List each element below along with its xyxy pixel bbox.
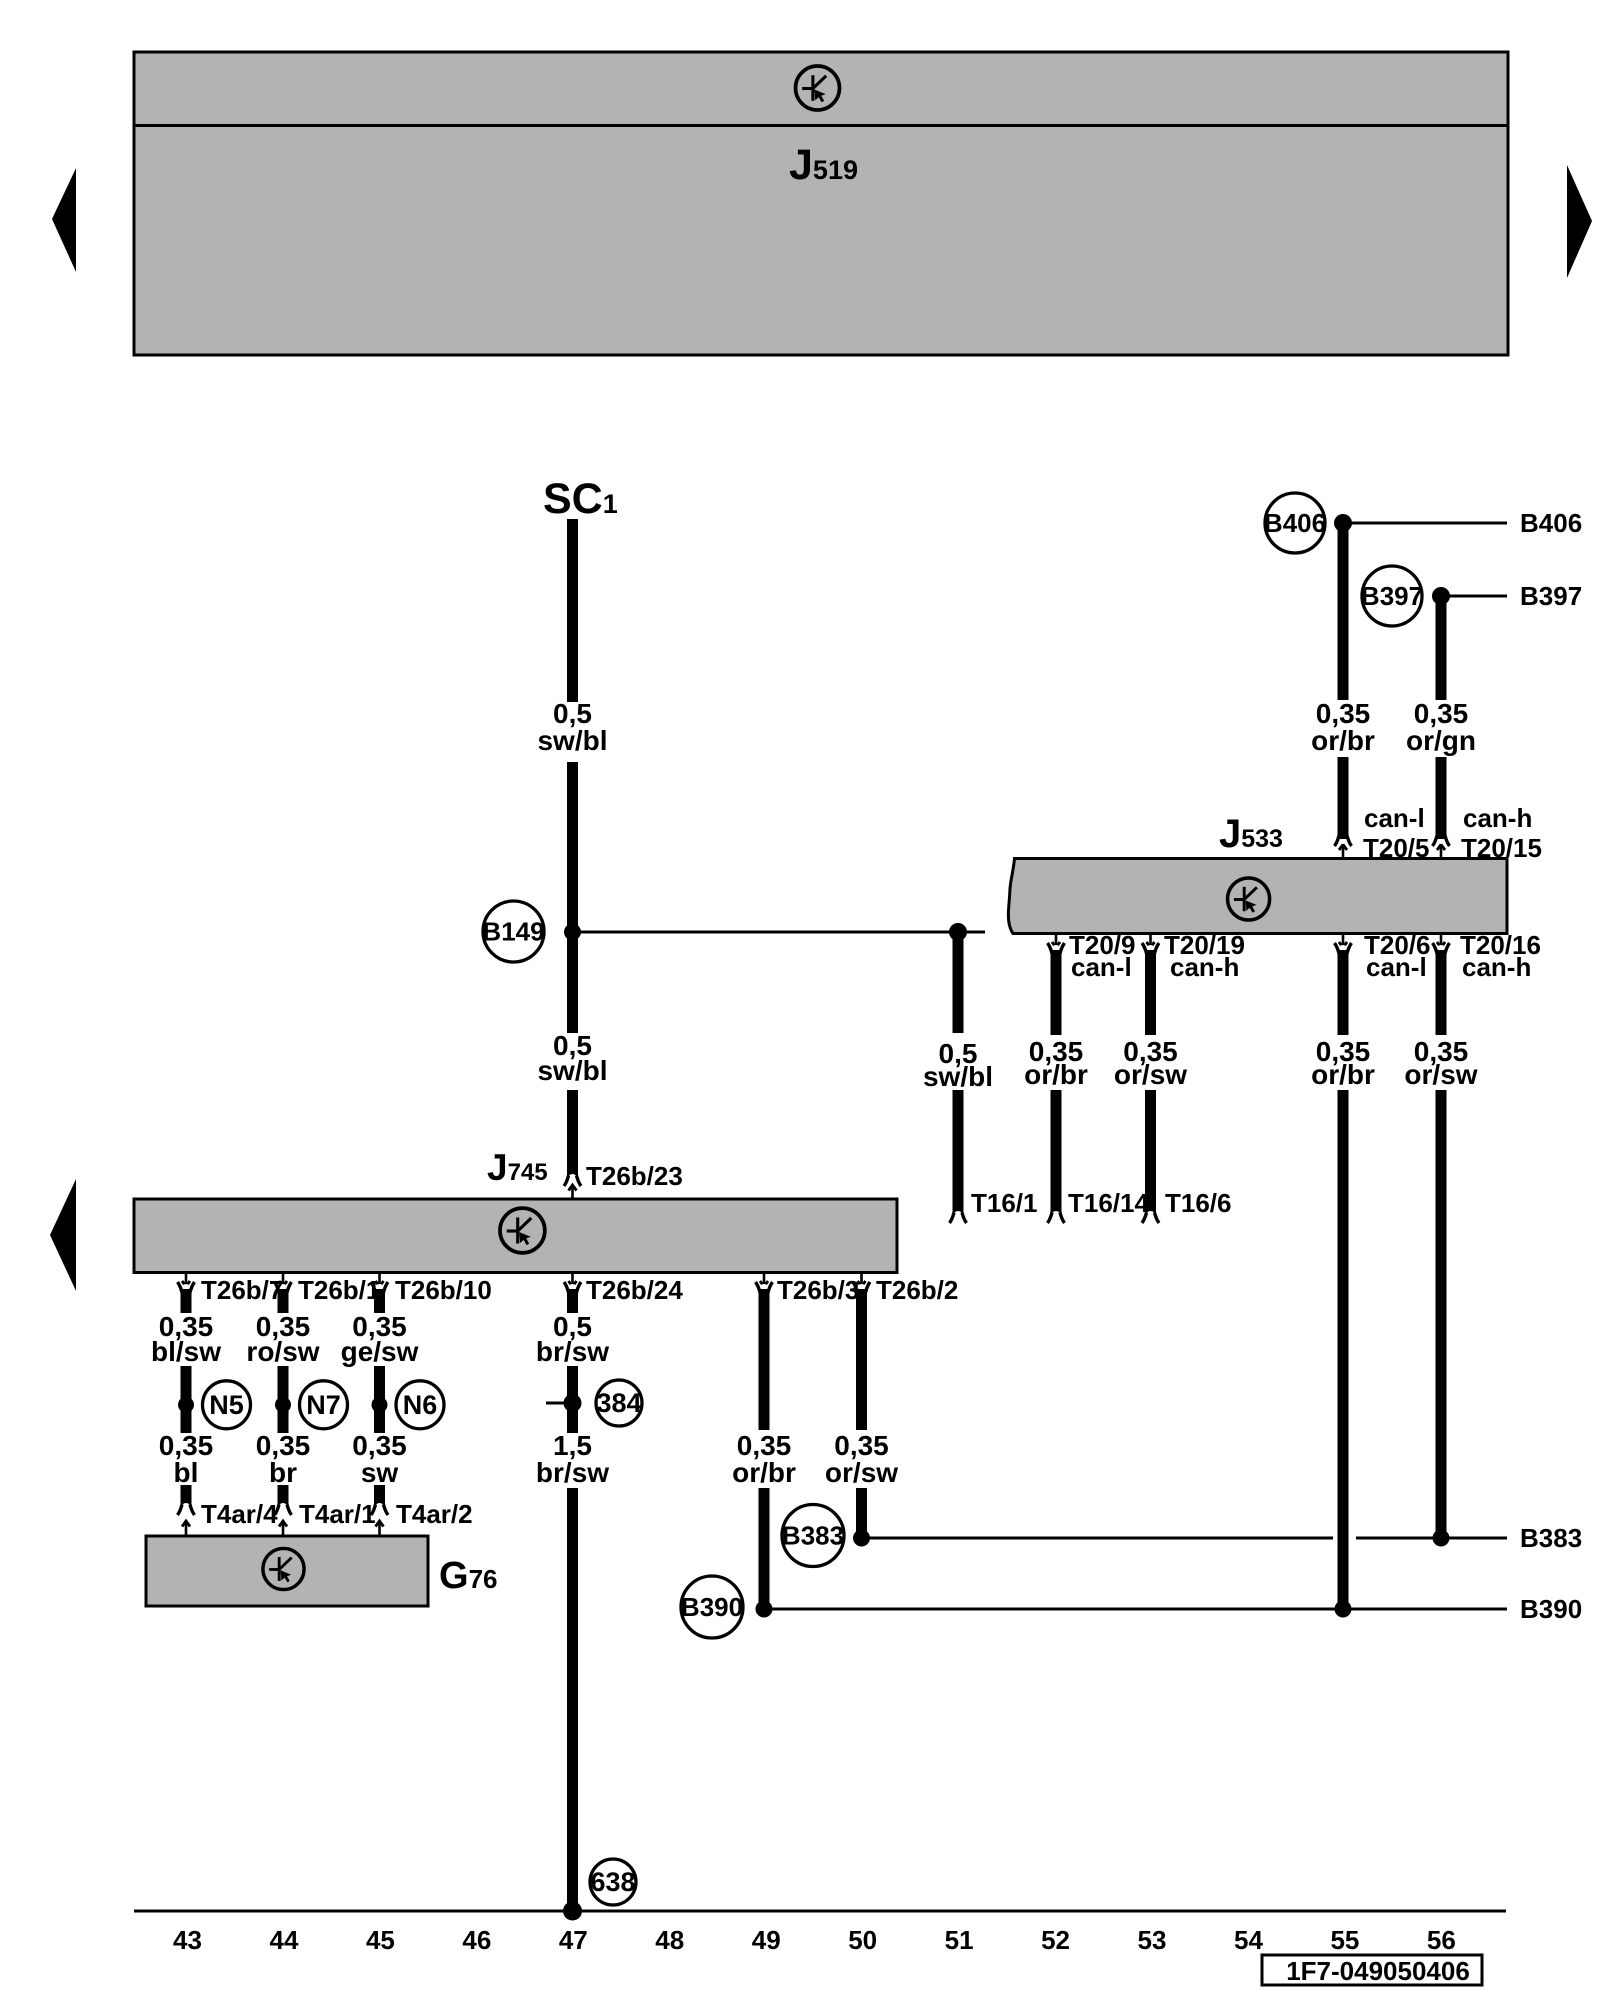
svg-text:can-h: can-h (1170, 952, 1239, 982)
svg-text:47: 47 (559, 1925, 588, 1955)
svg-text:46: 46 (462, 1925, 491, 1955)
svg-text:N5: N5 (209, 1390, 244, 1420)
svg-text:sw/bl: sw/bl (923, 1061, 993, 1092)
svg-text:B397: B397 (1520, 581, 1582, 611)
svg-text:T26b/3: T26b/3 (777, 1275, 859, 1305)
svg-text:T16/14: T16/14 (1068, 1188, 1149, 1218)
svg-text:45: 45 (366, 1925, 395, 1955)
svg-text:B383: B383 (782, 1521, 844, 1551)
svg-text:T20/5: T20/5 (1363, 833, 1430, 863)
svg-text:ge/sw: ge/sw (341, 1336, 419, 1367)
svg-text:T4ar/4: T4ar/4 (201, 1499, 278, 1529)
svg-text:B390: B390 (681, 1592, 743, 1622)
svg-text:T26b/7: T26b/7 (201, 1275, 283, 1305)
svg-text:bl: bl (174, 1457, 199, 1488)
svg-text:T26b/24: T26b/24 (586, 1275, 683, 1305)
svg-text:can-l: can-l (1364, 803, 1425, 833)
svg-text:53: 53 (1138, 1925, 1167, 1955)
svg-text:N6: N6 (403, 1390, 438, 1420)
svg-text:can-h: can-h (1463, 803, 1532, 833)
svg-text:br/sw: br/sw (536, 1336, 609, 1367)
svg-text:1F7-049050406: 1F7-049050406 (1286, 1956, 1470, 1986)
svg-text:54: 54 (1234, 1925, 1263, 1955)
svg-text:638: 638 (590, 1867, 635, 1897)
svg-text:T16/6: T16/6 (1165, 1188, 1232, 1218)
svg-text:bl/sw: bl/sw (151, 1336, 221, 1367)
svg-text:sw: sw (361, 1457, 399, 1488)
svg-text:B149: B149 (482, 917, 544, 947)
svg-text:384: 384 (596, 1388, 641, 1418)
svg-text:SC1: SC1 (543, 475, 618, 523)
svg-text:T26b/10: T26b/10 (395, 1275, 492, 1305)
svg-text:or/br: or/br (732, 1457, 796, 1488)
svg-text:T4ar/1: T4ar/1 (299, 1499, 376, 1529)
svg-text:sw/bl: sw/bl (537, 725, 607, 756)
svg-text:48: 48 (655, 1925, 684, 1955)
svg-text:51: 51 (945, 1925, 974, 1955)
svg-text:55: 55 (1330, 1925, 1359, 1955)
svg-text:N7: N7 (306, 1390, 341, 1420)
svg-text:or/sw: or/sw (1404, 1059, 1477, 1090)
svg-text:T20/15: T20/15 (1461, 833, 1542, 863)
svg-text:B406: B406 (1520, 508, 1582, 538)
svg-text:T16/1: T16/1 (971, 1188, 1038, 1218)
svg-text:or/br: or/br (1311, 725, 1375, 756)
svg-text:B383: B383 (1520, 1523, 1582, 1553)
svg-text:B390: B390 (1520, 1594, 1582, 1624)
svg-text:B406: B406 (1264, 508, 1326, 538)
svg-text:G76: G76 (439, 1555, 497, 1597)
svg-text:or/br: or/br (1024, 1059, 1088, 1090)
svg-text:52: 52 (1041, 1925, 1070, 1955)
svg-text:49: 49 (752, 1925, 781, 1955)
svg-text:or/br: or/br (1311, 1059, 1375, 1090)
svg-text:44: 44 (269, 1925, 298, 1955)
svg-text:or/gn: or/gn (1406, 725, 1476, 756)
svg-text:can-h: can-h (1462, 952, 1531, 982)
svg-text:br: br (269, 1457, 297, 1488)
svg-text:B397: B397 (1361, 581, 1423, 611)
svg-text:56: 56 (1427, 1925, 1456, 1955)
svg-text:J533: J533 (1219, 812, 1283, 856)
svg-text:T26b/1: T26b/1 (298, 1275, 380, 1305)
svg-text:T26b/2: T26b/2 (876, 1275, 958, 1305)
svg-text:or/sw: or/sw (1114, 1059, 1187, 1090)
svg-text:J745: J745 (487, 1147, 548, 1188)
svg-text:can-l: can-l (1366, 952, 1427, 982)
svg-text:ro/sw: ro/sw (246, 1336, 319, 1367)
svg-text:can-l: can-l (1071, 952, 1132, 982)
svg-text:43: 43 (173, 1925, 202, 1955)
svg-text:50: 50 (848, 1925, 877, 1955)
svg-text:sw/bl: sw/bl (537, 1055, 607, 1086)
svg-text:T26b/23: T26b/23 (586, 1161, 683, 1191)
svg-text:T4ar/2: T4ar/2 (396, 1499, 473, 1529)
svg-text:or/sw: or/sw (825, 1457, 898, 1488)
svg-text:br/sw: br/sw (536, 1457, 609, 1488)
